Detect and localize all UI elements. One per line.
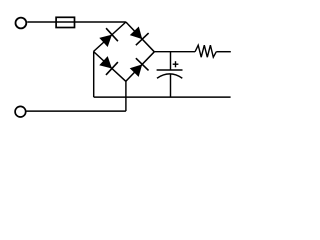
wire (negative rail) xyxy=(94,96,231,98)
capacitor C1 positive plate xyxy=(157,69,183,71)
diode D3 (lower-left edge, anode at left vertex) xyxy=(98,54,118,75)
terminal J1 (AC input top) xyxy=(16,18,27,29)
wire (top: terminal to bridge top vertex) xyxy=(27,21,126,23)
capacitor C1 lead (bottom) xyxy=(170,74,172,97)
polarity mark + xyxy=(173,61,179,67)
diode bridge outline: edge B-R xyxy=(126,52,155,82)
wire (output +) xyxy=(216,51,231,53)
wire (left vertex down to negative rail) xyxy=(93,52,95,98)
resistor R1 xyxy=(195,45,216,57)
diode bridge outline: edge L-B xyxy=(94,52,126,82)
wire (positive rail: right vertex to resistor) xyxy=(154,51,195,53)
diode D2 (upper-right edge, cathode at right vertex) xyxy=(128,25,149,45)
capacitor C1 lead (top) xyxy=(170,52,172,70)
diode bridge outline: edge T-R xyxy=(126,22,154,52)
fuse F1 xyxy=(56,17,74,27)
capacitor C1 negative plate (curved) xyxy=(157,74,182,78)
diode bridge outline: edge L-T xyxy=(94,22,126,52)
wire (bottom: terminal to bridge bottom vertex) xyxy=(27,110,126,112)
diode D1 (upper-left edge, anode at left vertex) xyxy=(98,28,118,49)
terminal J2 (AC input bottom) xyxy=(15,106,26,117)
diode D4 (lower-right edge, cathode at right vertex) xyxy=(128,58,149,78)
wire (bottom vertex down, crossing negative rail) xyxy=(125,81,127,111)
